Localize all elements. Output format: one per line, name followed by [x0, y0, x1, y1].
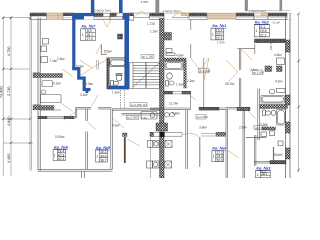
- svg-text:1.2м²: 1.2м²: [150, 30, 158, 34]
- svg-text:ур.2.000: ур.2.000: [127, 116, 138, 120]
- svg-text:2.3м: 2.3м: [141, 116, 147, 120]
- svg-text:2.730: 2.730: [7, 86, 11, 96]
- svg-text:Кв. №5: Кв. №5: [96, 145, 111, 150]
- svg-text:1.5м²: 1.5м²: [86, 82, 94, 86]
- svg-text:1: 1: [82, 33, 84, 37]
- svg-text:Кв. №7: Кв. №7: [82, 24, 97, 29]
- svg-text:4.2м²: 4.2м²: [275, 80, 283, 84]
- svg-text:60х60: 60х60: [274, 153, 283, 157]
- svg-text:2.6м²: 2.6м²: [239, 126, 247, 130]
- svg-text:1: 1: [257, 173, 259, 177]
- svg-text:ур.2.000: ур.2.000: [197, 115, 208, 119]
- svg-text:36.7: 36.7: [100, 159, 107, 163]
- svg-text:3.8м²: 3.8м²: [199, 126, 207, 130]
- svg-text:4.460: 4.460: [7, 153, 11, 163]
- svg-text:42.3: 42.3: [58, 157, 65, 161]
- svg-text:5.0м²: 5.0м²: [76, 64, 84, 68]
- svg-text:1.720: 1.720: [147, 22, 155, 26]
- svg-text:15.9м²: 15.9м²: [55, 135, 64, 139]
- svg-text:3.4м²: 3.4м²: [250, 68, 258, 72]
- svg-text:2.1м²: 2.1м²: [260, 123, 268, 127]
- svg-text:1.1м²: 1.1м²: [176, 83, 184, 87]
- svg-text:Кв. №4: Кв. №4: [212, 146, 227, 151]
- svg-text:2.8м²(1.9м²): 2.8м²(1.9м²): [94, 9, 111, 13]
- svg-text:8.5м²: 8.5м²: [104, 50, 112, 54]
- svg-text:2.8м²(1.9м²): 2.8м²(1.9м²): [163, 9, 180, 13]
- svg-text:8.1м²: 8.1м²: [273, 20, 280, 24]
- svg-text:4.2м²: 4.2м²: [112, 124, 120, 128]
- svg-text:4.840: 4.840: [7, 116, 11, 126]
- svg-text:3.2м²: 3.2м²: [80, 93, 88, 97]
- svg-text:27.0: 27.0: [87, 37, 94, 41]
- svg-text:1: 1: [212, 33, 214, 37]
- svg-text:4.6м²: 4.6м²: [176, 54, 184, 58]
- svg-text:3.8м²: 3.8м²: [172, 112, 180, 116]
- svg-text:Кв. №1: Кв. №1: [212, 23, 227, 28]
- svg-text:4.6м²: 4.6м²: [274, 53, 282, 57]
- svg-text:18.1: 18.1: [261, 172, 268, 176]
- svg-text:1: 1: [256, 29, 258, 33]
- svg-text:26.6: 26.6: [216, 158, 223, 162]
- svg-text:1.1м²: 1.1м²: [112, 90, 120, 94]
- svg-text:ур.2.000: ур.2.000: [199, 69, 210, 73]
- svg-text:1.375: 1.375: [141, 0, 149, 4]
- svg-text:4.1м²: 4.1м²: [53, 82, 61, 86]
- svg-text:ур.2.255 ±14: ур.2.255 ±14: [131, 103, 148, 107]
- svg-text:73.800: 73.800: [0, 86, 3, 98]
- svg-text:СБ-4: СБ-4: [269, 43, 273, 50]
- svg-text:11.2м²: 11.2м²: [169, 102, 178, 106]
- svg-text:14.2м²: 14.2м²: [225, 82, 234, 86]
- svg-text:1: 1: [54, 154, 56, 158]
- svg-text:1: 1: [213, 155, 215, 159]
- svg-text:4.750: 4.750: [7, 46, 11, 56]
- svg-text:2.4м²: 2.4м²: [57, 57, 65, 61]
- svg-text:1.940: 1.940: [217, 41, 225, 45]
- svg-text:Кв. №2: Кв. №2: [255, 20, 270, 25]
- svg-text:21.2: 21.2: [260, 34, 267, 38]
- svg-text:1.8м²(1.2м²): 1.8м²(1.2м²): [249, 9, 266, 13]
- svg-text:ур.1.100: ур.1.100: [142, 55, 153, 59]
- svg-text:1: 1: [96, 155, 98, 159]
- svg-text:2.1м²: 2.1м²: [187, 79, 195, 83]
